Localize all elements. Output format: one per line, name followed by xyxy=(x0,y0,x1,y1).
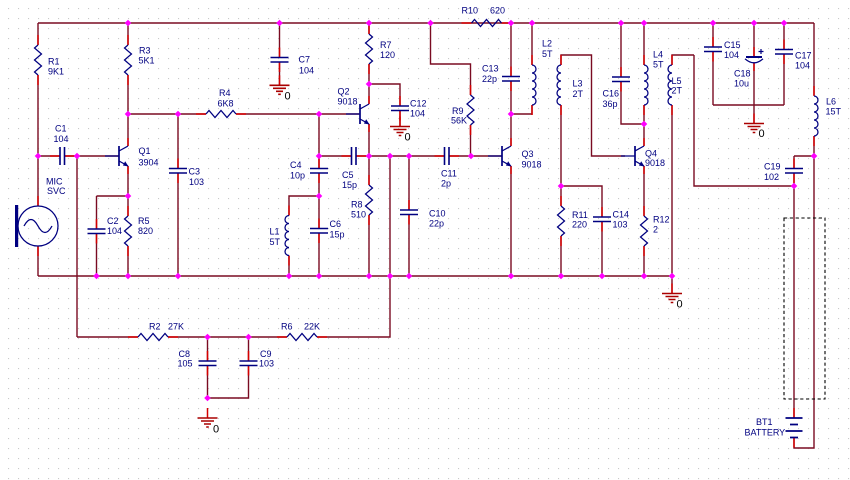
wire rail end ground stem xyxy=(671,276,673,294)
svg-text:L1: L1 xyxy=(270,227,280,237)
wire L1 bottom lead xyxy=(288,256,290,277)
svg-text:C17: C17 xyxy=(795,51,812,61)
svg-text:2: 2 xyxy=(653,225,658,235)
svg-text:MIC: MIC xyxy=(46,177,63,187)
junction mid C1 xyxy=(35,153,42,160)
capacitor C3 xyxy=(169,159,187,184)
svg-text:36p: 36p xyxy=(603,99,618,109)
junction rail C13 xyxy=(508,20,515,27)
junction mid R9 xyxy=(468,153,475,160)
capacitor C2 xyxy=(88,219,106,244)
junction base row C3 xyxy=(175,111,182,118)
junction C8 ground xyxy=(204,395,211,402)
svg-text:C19: C19 xyxy=(764,162,781,172)
svg-text:C16: C16 xyxy=(603,89,620,99)
ground rail end xyxy=(662,284,682,303)
wire C15 bottom lead xyxy=(712,52,714,106)
junction bot R8 xyxy=(366,273,373,280)
wire emitter node xyxy=(97,195,129,197)
junction base row C4 xyxy=(316,111,323,118)
wire osc column top xyxy=(318,114,320,169)
svg-text:104: 104 xyxy=(724,50,739,60)
wire C18 bottom lead xyxy=(753,63,755,105)
inductor L6 xyxy=(814,86,818,146)
wire feedback drop xyxy=(76,156,78,337)
svg-text:22K: 22K xyxy=(304,322,320,332)
wire C9 bottom tie xyxy=(208,366,249,399)
wire C14 spur xyxy=(561,186,602,217)
svg-text:104: 104 xyxy=(795,61,810,71)
svg-text:103: 103 xyxy=(189,177,204,187)
capacitor C5 xyxy=(342,147,367,165)
inductor L5 xyxy=(668,55,672,115)
ground C8 xyxy=(198,408,218,427)
svg-text:Q3: Q3 xyxy=(522,149,534,159)
svg-text:R11: R11 xyxy=(572,210,588,220)
wire C10 top lead xyxy=(408,156,410,210)
svg-text:15p: 15p xyxy=(342,180,357,190)
wire R7 to Q2 xyxy=(368,64,370,104)
wire Q3 collector lead xyxy=(510,114,512,146)
wire R2 left lead xyxy=(77,336,138,338)
wire C10 bottom lead xyxy=(408,215,410,277)
svg-text:Q1: Q1 xyxy=(139,146,151,156)
svg-text:C18: C18 xyxy=(734,69,751,79)
junction R2 C8 xyxy=(204,334,211,341)
wire C18 top lead xyxy=(753,23,755,57)
svg-text:L5: L5 xyxy=(672,76,682,86)
svg-text:BT1: BT1 xyxy=(756,417,773,427)
svg-text:9018: 9018 xyxy=(645,158,665,168)
wire L4 bottom lead xyxy=(643,105,645,124)
svg-text:R4: R4 xyxy=(219,88,231,98)
svg-text:C14: C14 xyxy=(613,210,630,220)
wire Q4 collector lead xyxy=(643,124,645,146)
wire L3 bottom lead xyxy=(560,105,562,186)
svg-text:5T: 5T xyxy=(542,49,553,59)
junction rail C18 xyxy=(751,20,758,27)
wire C2 top lead xyxy=(96,196,98,229)
wire R8 top lead xyxy=(368,156,370,185)
wire R3 top lead xyxy=(127,23,129,45)
resistor R5 xyxy=(125,206,132,256)
resistor R4 xyxy=(196,111,246,118)
svg-text:103: 103 xyxy=(613,220,628,230)
wire L2 bottom lead xyxy=(511,105,532,114)
resistor R8 xyxy=(366,175,373,225)
junction rail R3 xyxy=(125,20,132,27)
capacitor C19 xyxy=(785,159,803,184)
svg-text:R6: R6 xyxy=(281,322,293,332)
svg-text:22p: 22p xyxy=(429,219,444,229)
wire L1 top lead xyxy=(289,196,319,216)
svg-text:5T: 5T xyxy=(270,237,281,247)
junction C19 L6 xyxy=(811,153,818,160)
wire C1 to Q1 base xyxy=(65,155,120,157)
junction Q1 emitter xyxy=(125,193,132,200)
junction rail C7 xyxy=(276,20,283,27)
svg-text:2T: 2T xyxy=(573,89,584,99)
svg-text:C2: C2 xyxy=(107,216,119,226)
svg-text:22p: 22p xyxy=(482,74,497,84)
svg-text:C10: C10 xyxy=(429,209,446,219)
junction C9 top xyxy=(245,334,252,341)
wire R1 to MIC xyxy=(37,75,39,206)
svg-text:BATTERY: BATTERY xyxy=(745,428,786,438)
svg-text:C6: C6 xyxy=(330,219,342,229)
wire C8 top lead xyxy=(207,337,209,361)
capacitor C13 xyxy=(502,67,520,92)
wire C19 node xyxy=(794,155,814,157)
capacitor C8 xyxy=(199,351,217,376)
wire C17 top lead xyxy=(783,23,785,50)
junction rail C16 xyxy=(618,20,625,27)
inductor L4 xyxy=(644,55,648,115)
svg-text:0: 0 xyxy=(677,299,683,311)
transistor Q2 xyxy=(346,96,370,132)
svg-text:56K: 56K xyxy=(451,116,467,126)
junction bot R12 xyxy=(641,273,648,280)
junction bot L1 xyxy=(286,273,293,280)
svg-text:R9: R9 xyxy=(452,106,464,116)
svg-text:C15: C15 xyxy=(724,40,741,50)
svg-text:2T: 2T xyxy=(672,86,683,96)
wire C16 bottom lead xyxy=(621,82,644,125)
wire L4 top lead xyxy=(643,23,645,65)
wire R8 bottom lead xyxy=(368,215,370,276)
svg-text:510: 510 xyxy=(351,210,366,220)
svg-text:10u: 10u xyxy=(734,79,749,89)
wire base row left xyxy=(128,113,206,115)
junction bot ground xyxy=(669,273,676,280)
wire mid row a xyxy=(319,155,352,157)
svg-text:0: 0 xyxy=(213,424,219,436)
svg-text:105: 105 xyxy=(178,359,193,369)
svg-text:C8: C8 xyxy=(179,349,191,359)
wire C19 bottom lead xyxy=(793,173,795,186)
wire base row right xyxy=(236,113,359,115)
svg-text:R10: R10 xyxy=(462,6,479,16)
wire bottom rail xyxy=(38,275,672,277)
svg-text:120: 120 xyxy=(380,50,395,60)
junction rail L2 xyxy=(529,20,536,27)
svg-text:C9: C9 xyxy=(260,349,272,359)
wire mid row c xyxy=(449,155,502,157)
junction Q4 tank xyxy=(641,121,648,128)
wire C9 top lead xyxy=(248,337,250,361)
svg-text:Q4: Q4 xyxy=(645,149,657,159)
wire R6 right riser xyxy=(317,156,390,337)
wire C12 spur xyxy=(369,84,400,106)
inductor L2 xyxy=(532,55,536,115)
svg-text:2p: 2p xyxy=(441,179,451,189)
wire R3 to base row xyxy=(127,75,129,114)
inductor L3 xyxy=(557,55,561,115)
junction Q3 tank xyxy=(508,111,515,118)
svg-text:102: 102 xyxy=(764,172,779,182)
wire L6 top lead xyxy=(813,23,815,95)
svg-text:R5: R5 xyxy=(138,216,150,226)
wire R1 top lead xyxy=(37,23,39,45)
svg-text:L3: L3 xyxy=(573,79,583,89)
svg-text:5T: 5T xyxy=(653,60,664,70)
wire Q3 emitter lead xyxy=(510,166,512,276)
svg-text:Q2: Q2 xyxy=(338,87,350,97)
wire L6 bottom lead xyxy=(813,136,815,156)
wire C16 top lead xyxy=(620,23,622,77)
svg-text:R12: R12 xyxy=(653,215,670,225)
wire R7 top lead xyxy=(368,23,370,34)
capacitor C10 xyxy=(400,200,418,225)
junction bot riser xyxy=(387,273,394,280)
wire C15 top lead xyxy=(712,23,714,47)
junction bot C2 xyxy=(93,273,100,280)
junction rail C15 xyxy=(710,20,717,27)
wire C7 top lead xyxy=(279,23,281,58)
resistor R11 xyxy=(558,196,565,246)
transistor Q4 xyxy=(621,138,645,174)
wire V+ feed down xyxy=(694,55,794,186)
svg-text:R8: R8 xyxy=(351,200,363,210)
svg-text:15T: 15T xyxy=(826,107,842,117)
wire C3 bottom lead xyxy=(177,173,179,276)
wire R2 to R6 xyxy=(168,336,287,338)
wire R12 bottom lead xyxy=(643,246,645,276)
junction rail R7 xyxy=(366,20,373,27)
svg-text:6K8: 6K8 xyxy=(218,99,234,109)
resistor R3 xyxy=(125,35,132,85)
capacitor C14 xyxy=(593,207,611,232)
resistor R10 xyxy=(462,20,512,27)
wire C3 top lead xyxy=(177,114,179,169)
svg-text:9K1: 9K1 xyxy=(48,67,64,77)
capacitor C1 xyxy=(50,147,75,165)
wire C19 top lead xyxy=(793,156,795,169)
junction bot C3 xyxy=(175,273,182,280)
wire C13 top lead xyxy=(510,23,512,77)
svg-text:C12: C12 xyxy=(410,99,427,109)
svg-text:9018: 9018 xyxy=(522,160,542,170)
ground C7 xyxy=(270,75,290,94)
svg-text:5K1: 5K1 xyxy=(139,56,155,66)
junction rail L4 xyxy=(641,20,648,27)
junction L1 top xyxy=(316,193,323,200)
wire Q1 emitter lead xyxy=(127,166,129,196)
wire L2 top lead xyxy=(531,23,533,65)
wire R5 bottom lead xyxy=(127,246,129,276)
svg-text:R2: R2 xyxy=(149,322,161,332)
resistor R12 xyxy=(641,206,648,256)
svg-text:9018: 9018 xyxy=(338,97,358,107)
svg-text:104: 104 xyxy=(54,134,69,144)
svg-text:10p: 10p xyxy=(290,171,305,181)
transistor Q3 xyxy=(488,138,512,174)
wire R5 top lead xyxy=(127,196,129,216)
capacitor C7 xyxy=(271,48,289,73)
junction mid C10 xyxy=(406,153,413,160)
junction mid feedback xyxy=(74,153,81,160)
wire bus ground stem xyxy=(753,105,755,124)
svg-text:220: 220 xyxy=(572,220,587,230)
svg-text:C1: C1 xyxy=(55,124,67,134)
capacitor C4 xyxy=(310,159,328,184)
capacitor C16 xyxy=(612,67,630,92)
wire V+ top rail xyxy=(38,22,814,24)
wire C4 to C6 xyxy=(318,173,320,229)
resistor R7 xyxy=(366,24,373,74)
resistor R6 xyxy=(277,334,327,341)
wire C6 bottom lead xyxy=(318,233,320,276)
capacitor C11 xyxy=(435,147,460,165)
capacitor C6 xyxy=(310,219,328,244)
capacitor C18 (electrolytic) xyxy=(745,47,764,71)
resistor R2 xyxy=(128,334,178,341)
svg-text:C5: C5 xyxy=(342,170,354,180)
wire battery negative return xyxy=(794,156,814,448)
wire L5 top lead xyxy=(672,55,694,65)
ground cap bank xyxy=(744,114,764,133)
junction mid R8 xyxy=(366,153,373,160)
junction bot R11 xyxy=(558,273,565,280)
svg-text:R7: R7 xyxy=(380,40,392,50)
svg-text:L6: L6 xyxy=(826,97,836,107)
transistor Q1 xyxy=(105,138,129,174)
junction R7 C12 xyxy=(366,81,373,88)
svg-text:0: 0 xyxy=(759,128,765,140)
wire R9 jog xyxy=(431,23,471,95)
microphone MIC xyxy=(15,196,58,256)
wire C13 bottom lead xyxy=(510,81,512,114)
capacitor C9 xyxy=(240,351,258,376)
wire C7 to ground xyxy=(279,62,281,86)
wire L5 bottom lead xyxy=(671,105,673,276)
svg-text:C4: C4 xyxy=(290,160,302,170)
wire R11 bottom lead xyxy=(560,236,562,276)
resistor R9 xyxy=(467,85,474,135)
antenna dashed box xyxy=(784,218,825,399)
junction C19 bottom xyxy=(791,183,798,190)
wire C8 to tie xyxy=(207,366,209,399)
svg-text:C11: C11 xyxy=(441,169,457,179)
svg-text:C3: C3 xyxy=(189,167,201,177)
wire C14 bottom lead xyxy=(601,222,603,277)
junction R11 top xyxy=(558,183,565,190)
junction rail C17 xyxy=(781,20,788,27)
svg-text:R1: R1 xyxy=(48,57,60,67)
wire L3 top to Q4 base xyxy=(561,55,625,156)
svg-text:0: 0 xyxy=(285,91,291,103)
junction bot Q3 xyxy=(508,273,515,280)
wire R9 bottom lead xyxy=(470,125,472,156)
svg-text:103: 103 xyxy=(259,359,274,369)
wire C17 bottom lead xyxy=(783,54,785,105)
wire mid row b xyxy=(356,155,445,157)
wire battery positive lead xyxy=(793,186,795,418)
wire mid row to C1 xyxy=(38,155,60,157)
junction bot C6 xyxy=(316,273,323,280)
junction bot C10 xyxy=(406,273,413,280)
svg-text:27K: 27K xyxy=(168,322,184,332)
svg-text:15p: 15p xyxy=(330,230,345,240)
svg-text:104: 104 xyxy=(299,66,314,76)
ground C12 xyxy=(390,117,410,136)
svg-text:R3: R3 xyxy=(139,46,151,56)
wire MIC bottom xyxy=(37,246,39,276)
svg-text:C13: C13 xyxy=(482,64,499,74)
inductor L1 xyxy=(285,206,289,266)
capacitor C12 xyxy=(391,96,409,121)
svg-text:820: 820 xyxy=(138,226,153,236)
svg-text:SVC: SVC xyxy=(47,186,66,196)
junction mid C4 xyxy=(316,153,323,160)
battery BT1 xyxy=(786,408,803,448)
resistor R1 xyxy=(35,35,42,85)
wire Q4 emitter to R12 xyxy=(643,166,645,216)
wire C12 to ground xyxy=(399,111,401,127)
svg-text:620: 620 xyxy=(490,6,505,16)
svg-text:C7: C7 xyxy=(299,55,311,65)
wire Q1 collector lead xyxy=(127,114,129,146)
svg-text:3904: 3904 xyxy=(139,158,159,168)
junction rail R9 xyxy=(427,20,434,27)
svg-text:0: 0 xyxy=(405,132,411,144)
junction mid riser xyxy=(387,153,394,160)
junction bot R5 xyxy=(125,273,132,280)
svg-text:104: 104 xyxy=(107,226,122,236)
wire R11 top lead xyxy=(560,186,562,206)
junction base row R3 xyxy=(125,111,132,118)
svg-text:L2: L2 xyxy=(542,39,552,49)
wire cap bank bus xyxy=(713,104,784,106)
capacitor C17 xyxy=(775,40,793,65)
junction bot C14 xyxy=(599,273,606,280)
svg-text:104: 104 xyxy=(410,109,425,119)
svg-text:L4: L4 xyxy=(653,50,663,60)
capacitor C15 xyxy=(704,37,722,62)
wire Q2 emitter lead xyxy=(368,124,370,156)
wire C2 bottom lead xyxy=(96,234,98,277)
